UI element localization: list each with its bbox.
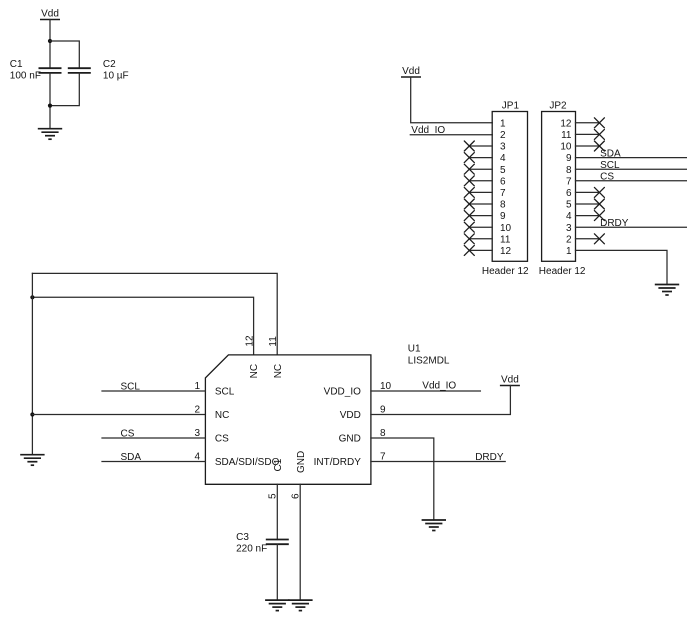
- svg-text:VDD: VDD: [340, 410, 361, 421]
- no-connect X JP2 pin 4: [594, 211, 604, 221]
- wire JP2 pin 3 DRDY: [576, 226, 687, 228]
- svg-text:U1: U1: [408, 344, 421, 355]
- svg-text:1: 1: [500, 118, 506, 129]
- svg-text:4: 4: [566, 211, 572, 222]
- wire JP1 pin 6 stub: [469, 180, 492, 182]
- svg-text:Vdd_IO: Vdd_IO: [422, 380, 456, 391]
- node junction Vdd/C1/C2 top: [48, 39, 52, 43]
- label C1 / 100 nF: [10, 59, 41, 81]
- no-connect X JP1 pin 9: [464, 211, 474, 221]
- svg-text:100 nF: 100 nF: [10, 70, 41, 81]
- no-connect X JP1 pin 11: [464, 234, 474, 244]
- svg-text:SDA/SDI/SDO: SDA/SDI/SDO: [215, 457, 280, 468]
- svg-text:220 nF: 220 nF: [236, 543, 267, 554]
- label C2 / 10 uF: [103, 59, 129, 81]
- wire JP2 pin 11 stub: [576, 133, 600, 135]
- node junction NC net at pin 2 row: [30, 412, 34, 416]
- wire U1 pin 2 to NC net: [32, 414, 205, 416]
- svg-text:7: 7: [566, 176, 572, 187]
- svg-text:GND: GND: [296, 451, 307, 473]
- no-connect X JP2 pin 11: [594, 129, 604, 139]
- wire JP2 pin 5 stub: [576, 203, 600, 205]
- svg-text:11: 11: [561, 130, 572, 141]
- ground (U1 pin 8): [422, 520, 446, 531]
- svg-text:NC: NC: [273, 364, 284, 378]
- wire C1 bottom to ground: [49, 73, 51, 129]
- svg-text:10 µF: 10 µF: [103, 70, 129, 81]
- svg-text:JP1: JP1: [502, 100, 520, 111]
- wire JP2 pin 6 stub: [576, 191, 600, 193]
- svg-text:11: 11: [268, 336, 279, 347]
- svg-text:C1: C1: [273, 458, 284, 471]
- svg-text:2: 2: [500, 130, 506, 141]
- power symbol Vdd (top-left): [40, 8, 60, 19]
- svg-text:9: 9: [380, 405, 386, 416]
- svg-text:8: 8: [500, 200, 506, 211]
- svg-text:8: 8: [566, 165, 572, 176]
- wire JP2 pin 4 stub: [576, 215, 600, 217]
- label U1 / LIS2MDL: [408, 344, 450, 367]
- wire JP2 pin 8 SCL: [576, 168, 687, 170]
- svg-text:3: 3: [500, 142, 506, 153]
- wire C2 bottom branch: [50, 73, 79, 106]
- svg-text:C1: C1: [10, 59, 23, 70]
- wire SDA to U1 pin 4: [102, 461, 205, 463]
- svg-text:1: 1: [194, 381, 200, 392]
- svg-text:C3: C3: [236, 532, 249, 543]
- svg-text:Vdd: Vdd: [501, 374, 519, 385]
- svg-text:NC: NC: [249, 364, 260, 378]
- ground (NC net, left of U1): [20, 455, 44, 466]
- wire U1 pin 8 to ground: [371, 438, 434, 520]
- svg-text:2: 2: [194, 405, 200, 416]
- wire JP1 pin 10 stub: [469, 226, 492, 228]
- wire Vdd to JP1 pin 1: [411, 77, 493, 123]
- wire U1 pin 10 Vdd_IO: [371, 390, 481, 392]
- no-connect X JP1 pin 12: [464, 245, 474, 255]
- capacitor C2: [68, 68, 91, 73]
- no-connect X JP1 pin 6: [464, 176, 474, 186]
- wire JP2 pin 9 SDA: [576, 157, 687, 159]
- svg-text:11: 11: [500, 234, 511, 245]
- wire branch to C2 top: [50, 41, 79, 68]
- IC U1 LIS2MDL body: [205, 355, 371, 484]
- svg-text:5: 5: [566, 200, 572, 211]
- svg-text:7: 7: [500, 188, 506, 199]
- wire JP2 pin 2 stub: [576, 238, 600, 240]
- svg-text:SCL: SCL: [215, 387, 235, 398]
- wire Vdd to U1 pin 9: [371, 386, 511, 415]
- svg-text:9: 9: [500, 211, 506, 222]
- no-connect X JP1 pin 7: [464, 187, 474, 197]
- wire NC net left vertical to ground: [31, 273, 33, 454]
- svg-text:12: 12: [245, 335, 256, 347]
- wire U1 pin 5 to C3: [276, 484, 278, 539]
- svg-text:C2: C2: [103, 59, 116, 70]
- no-connect X JP2 pin 5: [594, 199, 604, 209]
- wire SCL to U1 pin 1: [102, 390, 205, 392]
- no-connect X JP2 pin 12: [594, 118, 604, 128]
- svg-text:10: 10: [380, 381, 392, 392]
- capacitor C1: [39, 68, 62, 73]
- svg-text:VDD_IO: VDD_IO: [324, 387, 361, 398]
- svg-text:2: 2: [566, 234, 572, 245]
- no-connect X JP1 pin 10: [464, 222, 474, 232]
- wire JP2 pin 10 stub: [576, 145, 600, 147]
- node junction C1/C2 bottom: [48, 104, 52, 108]
- wire U1 pin 7 DRDY: [371, 461, 505, 463]
- svg-text:8: 8: [380, 428, 386, 439]
- svg-text:Vdd: Vdd: [402, 66, 420, 77]
- ground (U1 pin 6): [288, 600, 312, 611]
- svg-text:NC: NC: [215, 410, 229, 421]
- svg-text:JP2: JP2: [549, 100, 567, 111]
- power symbol Vdd (header): [401, 66, 421, 77]
- power symbol Vdd (right of U1): [500, 374, 520, 385]
- wire JP1 pin 8 stub: [469, 203, 492, 205]
- wire JP2 pin 1 to ground: [576, 250, 668, 284]
- svg-text:3: 3: [194, 428, 200, 439]
- wire U1 pin 6 to ground: [299, 484, 301, 600]
- connector JP1: [482, 100, 529, 276]
- no-connect X JP1 pin 5: [464, 164, 474, 174]
- svg-text:4: 4: [500, 153, 506, 164]
- no-connect X JP2 pin 10: [594, 141, 604, 151]
- node junction NC net upper: [30, 295, 34, 299]
- svg-text:1: 1: [566, 246, 572, 257]
- svg-text:Vdd: Vdd: [41, 8, 59, 19]
- wire NC net top run to U1 pin 11: [32, 273, 277, 355]
- wire JP1 pin 11 stub: [469, 238, 492, 240]
- wire JP1 pin 9 stub: [469, 215, 492, 217]
- no-connect X JP1 pin 3: [464, 141, 474, 151]
- wire NC net second run to U1 pin 12: [32, 297, 253, 355]
- no-connect X JP2 pin 2: [594, 234, 604, 244]
- svg-text:10: 10: [500, 223, 512, 234]
- wire C3 to ground: [276, 544, 278, 600]
- svg-text:4: 4: [194, 452, 200, 463]
- svg-text:6: 6: [500, 176, 506, 187]
- svg-text:CS: CS: [215, 434, 229, 445]
- ground (C3 / U1 pin 5): [265, 600, 289, 611]
- no-connect X JP1 pin 4: [464, 153, 474, 163]
- no-connect X JP1 pin 8: [464, 199, 474, 209]
- svg-text:5: 5: [500, 165, 506, 176]
- wire JP1 pin 7 stub: [469, 191, 492, 193]
- wire JP1 pin 12 stub: [469, 249, 492, 251]
- label C3 / 220 nF: [236, 532, 267, 554]
- svg-text:Header 12: Header 12: [482, 266, 529, 277]
- capacitor C3: [266, 540, 289, 545]
- svg-text:7: 7: [380, 452, 386, 463]
- svg-text:12: 12: [500, 246, 512, 257]
- svg-text:10: 10: [560, 142, 572, 153]
- svg-text:LIS2MDL: LIS2MDL: [408, 355, 450, 366]
- wire JP2 pin 12 stub: [576, 122, 600, 124]
- wire net Vdd_IO to JP1 pin 2: [410, 134, 492, 136]
- svg-text:12: 12: [560, 118, 572, 129]
- svg-text:9: 9: [566, 153, 572, 164]
- wire CS to U1 pin 3: [102, 437, 205, 439]
- wire Vdd to C1 top: [49, 20, 51, 69]
- wire JP1 pin 3 stub: [469, 145, 492, 147]
- svg-text:INT/DRDY: INT/DRDY: [314, 457, 362, 468]
- ground (JP2 pin 1): [655, 285, 679, 296]
- connector JP2: [539, 100, 586, 276]
- wire JP2 pin 7 CS: [576, 180, 687, 182]
- ground (top-left): [38, 129, 62, 140]
- wire JP1 pin 4 stub: [469, 157, 492, 159]
- svg-text:3: 3: [566, 223, 572, 234]
- wire JP1 pin 5 stub: [469, 168, 492, 170]
- no-connect X JP2 pin 6: [594, 187, 604, 197]
- svg-text:GND: GND: [339, 434, 361, 445]
- svg-text:6: 6: [566, 188, 572, 199]
- svg-text:Header 12: Header 12: [539, 266, 586, 277]
